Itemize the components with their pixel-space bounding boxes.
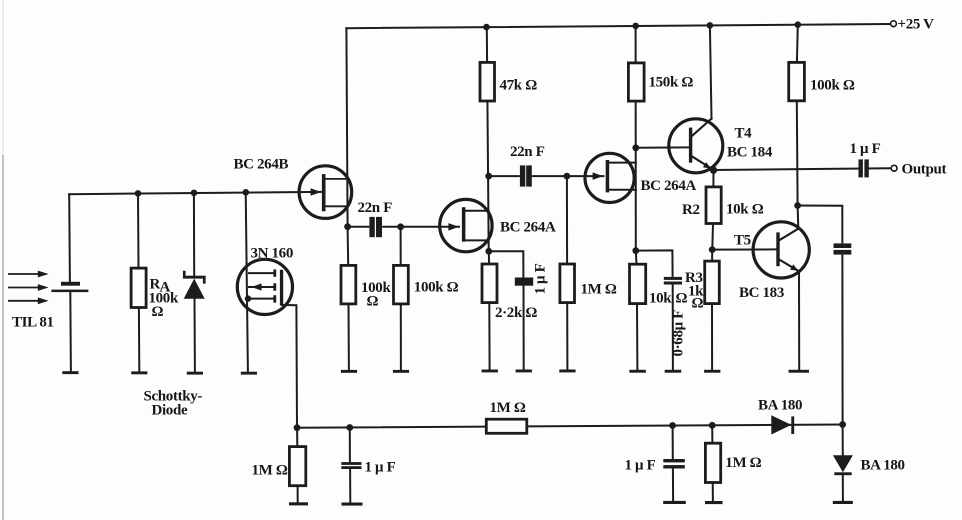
wire BC264B drain/source vertical	[346, 28, 347, 227]
capacitor 1uF output	[859, 159, 869, 177]
wire TIL81 bottom lead	[69, 292, 72, 371]
junction dots node B	[485, 173, 492, 180]
svg-text:1 μ F: 1 μ F	[365, 460, 396, 476]
wire R3 leads	[711, 250, 713, 370]
resistor 1M horizontal feedback	[486, 419, 527, 433]
ground 1M bottom mid	[705, 501, 723, 504]
terminal output	[891, 165, 897, 171]
transistor BC264A first circle	[440, 199, 492, 251]
ground 3N160	[241, 372, 257, 375]
svg-text:T4: T4	[735, 125, 753, 141]
wire T5 emitter vertical	[798, 271, 800, 369]
svg-text:1 μ F: 1 μ F	[625, 458, 656, 474]
diode schottky symbol	[183, 276, 206, 279]
wire node B link (drain JFET1 to C 22n to gate JFET2)	[489, 175, 604, 177]
ground 0.68uF	[665, 370, 682, 373]
transistor T4 emitter arrow	[703, 162, 711, 169]
capacitor 22n second	[520, 165, 532, 186]
svg-text:BA 180: BA 180	[758, 398, 802, 414]
resistor 100k second	[394, 265, 409, 304]
wire T4 emitter diagonal	[692, 156, 714, 170]
svg-text:BC 183: BC 183	[739, 285, 784, 301]
ground R3	[704, 370, 720, 373]
capacitor 0.68uF	[664, 277, 682, 285]
wire T4 collector diagonal	[692, 119, 712, 136]
svg-text:150k Ω: 150k Ω	[649, 75, 694, 91]
svg-text:BA 180: BA 180	[861, 458, 905, 474]
svg-text:+25 V: +25 V	[898, 17, 935, 33]
wire T5 emitter diagonal	[780, 260, 799, 272]
wire node A link (BC264B source to C 22n to gate)	[348, 226, 459, 228]
ground 100k first	[341, 370, 357, 373]
capacitor 1uF bottom left	[341, 462, 361, 469]
wire 47k branch vertical through JFET1	[487, 27, 489, 251]
wire 100k R leads below BC264B	[348, 227, 349, 370]
svg-text:2·2k Ω: 2·2k Ω	[495, 305, 537, 321]
svg-text:BC 264A: BC 264A	[500, 220, 556, 236]
transistor 3N160 substrate dot	[245, 295, 251, 301]
resistor 1M bottom mid	[705, 443, 720, 482]
wire R2 leads	[712, 170, 713, 249]
wire AGC takeoff to 22n and diodes	[798, 206, 843, 425]
transistor BC264B gate arrow	[311, 188, 321, 196]
wire 2.2k leads	[488, 251, 491, 369]
transistor BC264A first gate bar	[462, 207, 466, 242]
wire T5 collector diagonal	[780, 229, 799, 240]
transistor T5 base bar	[776, 232, 779, 266]
wire T5 collector vertical	[797, 206, 800, 229]
wire T4 collector vertical	[710, 25, 712, 118]
transistor BC264A second gate bar	[606, 160, 610, 192]
svg-text:1 μ F: 1 μ F	[850, 141, 881, 157]
transistor BC264A second gate arrow	[593, 172, 603, 180]
transistor 3N160 circle	[237, 259, 292, 314]
ground 2.2k	[482, 370, 498, 373]
ground 1uF bypass	[516, 370, 532, 373]
svg-text:1M Ω: 1M Ω	[725, 455, 761, 471]
wire 10k leads	[636, 251, 638, 370]
svg-text:1M Ω: 1M Ω	[581, 282, 617, 298]
svg-text:0·68μ F: 0·68μ F	[671, 310, 687, 357]
wire 153k branch vertical through JFET2	[635, 26, 637, 251]
ground TIL81	[62, 371, 78, 374]
svg-text:T5: T5	[734, 233, 751, 249]
junction dots top rail	[483, 24, 490, 31]
junction dot 10k node	[632, 247, 639, 254]
transistor BC264B circle	[299, 166, 352, 219]
transistor 3N160 channel ticks	[273, 269, 276, 276]
resistor RA 100k	[131, 268, 146, 307]
transistor T4 circle	[669, 119, 723, 173]
svg-text:Diode: Diode	[152, 403, 188, 419]
wire JFET2 source stub	[609, 189, 636, 191]
wire 1M leads bottom mid	[711, 425, 714, 500]
transistor BC264B gate bar and stubs	[322, 174, 326, 211]
transistor BC264A first gate arrow	[448, 223, 458, 231]
resistor 100k first	[341, 265, 356, 304]
wire 1M leads bottom left	[296, 428, 299, 503]
diode BA180 shunt	[833, 455, 853, 472]
photodetector TIL81 plates	[61, 282, 80, 286]
wire feedback bottom line	[297, 425, 843, 428]
wire 1uF leads bottom left	[349, 428, 352, 503]
wire schottky leads	[194, 193, 195, 372]
svg-text:47k Ω: 47k Ω	[500, 78, 538, 94]
svg-text:BC 184: BC 184	[727, 144, 773, 160]
resistor 100k collector load right	[789, 62, 805, 100]
wire 100k right branch vertical	[797, 25, 798, 206]
ground 1uF bottom left	[342, 503, 363, 506]
svg-text:100k Ω: 100k Ω	[810, 78, 855, 94]
diode BA180 series	[771, 415, 791, 434]
wire T5 base lead	[712, 248, 776, 250]
wire 3N160 source-drain line	[246, 192, 248, 371]
resistor 2.2k	[482, 264, 497, 303]
transistor T5 circle	[753, 222, 809, 278]
capacitor 1uF bottom mid	[663, 459, 685, 469]
resistor 10k source JFET2	[630, 264, 646, 303]
junction dot JFET1 source	[485, 248, 492, 255]
transistor 3N160 gate electrode bar	[280, 270, 283, 305]
capacitor 22n AGC	[834, 243, 852, 254]
wire top supply rail	[346, 24, 890, 28]
svg-text:1M Ω: 1M Ω	[252, 463, 288, 479]
svg-text:Output: Output	[902, 162, 947, 178]
svg-text:22n F: 22n F	[358, 200, 393, 216]
svg-text:BC 264B: BC 264B	[234, 157, 289, 173]
ground 1M bottom left	[289, 502, 308, 505]
wire JFET1 drain stub	[465, 210, 488, 212]
wire 1M leads	[566, 176, 569, 369]
wire second 100k leads	[400, 227, 402, 370]
ground schottky	[187, 372, 203, 375]
junction dots feedback line	[294, 424, 301, 431]
resistor 47k	[480, 62, 495, 101]
svg-text:R2: R2	[682, 202, 700, 218]
ground T5 emitter	[789, 370, 810, 373]
svg-text:10k: 10k	[649, 291, 672, 307]
resistor 150k	[628, 63, 644, 101]
junction dots input node	[135, 190, 142, 197]
light arrows	[8, 273, 40, 302]
ground RA	[131, 371, 147, 374]
wire 1uF leads bottom mid	[672, 426, 675, 501]
svg-text:Ω: Ω	[152, 304, 164, 320]
transistor BC264A second circle	[585, 153, 634, 202]
ground 1M	[559, 370, 575, 373]
wire 3N160 gate lead to feedback node	[282, 305, 298, 428]
wire jog to 1uF bypass	[489, 251, 524, 369]
junction dot T4 emitter output node	[710, 166, 717, 173]
ground 100k second	[393, 370, 409, 373]
resistor R2 10k	[706, 187, 721, 224]
ground 1uF bottom mid	[663, 501, 686, 504]
transistor 3N160 substrate arrow	[252, 283, 262, 290]
svg-text:Ω: Ω	[676, 291, 688, 307]
wire JFET1 source stub	[465, 239, 488, 241]
svg-text:100k Ω: 100k Ω	[414, 280, 459, 296]
wire input node horizontal	[69, 192, 322, 194]
wire T4 base lead	[636, 146, 689, 148]
resistor 1M bottom left	[289, 447, 305, 486]
terminal +25V	[891, 21, 897, 27]
junction dot R2 R3 T5 base node	[709, 246, 716, 253]
svg-text:1M Ω: 1M Ω	[490, 400, 526, 416]
svg-text:Ω: Ω	[367, 294, 379, 310]
wire BA180 shunt diode lead	[842, 425, 844, 501]
wire output line	[714, 168, 891, 170]
svg-text:1 μ F: 1 μ F	[533, 263, 549, 294]
junction dot T4 base node	[632, 144, 639, 151]
capacitor 22n first	[369, 217, 382, 237]
ground BA180	[833, 501, 853, 504]
ground 10k	[629, 370, 646, 373]
svg-text:22n F: 22n F	[510, 144, 545, 160]
resistor 1M gate JFET2	[560, 264, 575, 303]
wire RA leads	[138, 193, 139, 371]
transistor 3N160 stubs	[248, 273, 275, 299]
junction dot T5 collector node	[794, 202, 801, 209]
svg-text:Ω: Ω	[692, 296, 704, 312]
wire JFET2 drain stub	[609, 162, 636, 164]
svg-text:10k Ω: 10k Ω	[726, 201, 764, 217]
junction dots node A	[344, 223, 351, 230]
transistor T5 emitter arrow	[790, 264, 798, 271]
capacitor 1uF source bypass	[515, 278, 533, 286]
svg-text:TIL 81: TIL 81	[12, 315, 54, 331]
svg-text:BC 264A: BC 264A	[641, 178, 697, 194]
resistor R3 1k	[705, 261, 720, 304]
wire TIL81 top lead	[68, 194, 71, 282]
svg-text:3N 160: 3N 160	[251, 245, 293, 261]
scan artifact left edge	[2, 155, 4, 520]
wire jog to 0.68uF	[636, 250, 673, 369]
transistor T4 base bar	[689, 128, 692, 163]
